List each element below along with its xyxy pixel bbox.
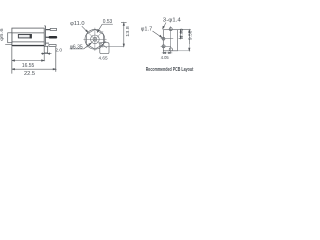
svg-text:4.65: 4.65 [98,55,108,60]
svg-text:4.50: 4.50 [179,28,184,38]
svg-text:4.05: 4.05 [161,55,169,60]
svg-text:3-φ1.4: 3-φ1.4 [163,18,181,24]
svg-text:22.5: 22.5 [24,71,35,77]
svg-text:φ5.6: φ5.6 [0,28,4,41]
svg-text:Recommended PCB Layout: Recommended PCB Layout [146,67,194,73]
svg-text:φ1.7: φ1.7 [141,27,153,33]
svg-text:16.55: 16.55 [22,63,34,69]
svg-text:9.50: 9.50 [188,30,193,40]
svg-text:2.0: 2.0 [55,48,62,54]
svg-text:13.8: 13.8 [125,26,130,37]
svg-text:φ11.0: φ11.0 [70,21,85,27]
svg-text:φ6.35: φ6.35 [70,44,83,50]
